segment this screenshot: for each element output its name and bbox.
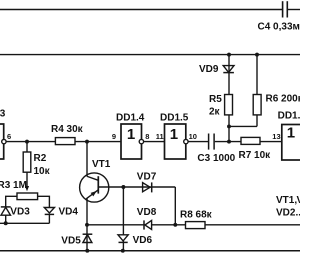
svg-text:8: 8 — [145, 132, 149, 141]
svg-text:R8 68к: R8 68к — [180, 210, 213, 221]
diode VD5 — [61, 234, 92, 246]
svg-text:1: 1 — [287, 125, 295, 142]
svg-text:10к: 10к — [34, 166, 51, 177]
svg-text:R2: R2 — [34, 153, 47, 164]
wire DD1.4 to DD1.5 — [144, 141, 165, 143]
svg-text:DD1.6: DD1.6 — [278, 111, 300, 122]
wire second rail — [0, 54, 300, 56]
wire DD1.5 to C3 — [188, 141, 208, 143]
wire C3 to R7 — [215, 141, 241, 143]
svg-text:DD1.4: DD1.4 — [116, 113, 145, 124]
diode VD6 — [118, 235, 152, 246]
resistor R4 — [51, 124, 84, 145]
wire top rail right of C4 — [288, 9, 300, 11]
svg-text:9: 9 — [112, 132, 116, 141]
wire VT1 emitter down — [86, 198, 88, 225]
wire VD7 row — [123, 186, 175, 188]
node junction VT1 collector tap — [85, 140, 89, 144]
gate DD1.4 — [112, 113, 150, 159]
wire top rail to C4 — [0, 9, 282, 11]
svg-text:VD9: VD9 — [199, 64, 219, 75]
resistor R6 — [253, 93, 304, 115]
node junction R5/R6 — [227, 124, 231, 128]
node junction VD6/bus — [121, 249, 125, 253]
resistor R8 — [180, 210, 213, 229]
potentiometer R3 — [0, 180, 38, 200]
svg-text:11: 11 — [156, 132, 164, 141]
node junction emitter/VD5 — [85, 223, 89, 227]
wire VD9-R5 branch — [228, 55, 230, 95]
svg-text:VT: VT — [297, 195, 301, 206]
svg-text:VD7: VD7 — [137, 172, 157, 183]
svg-text:1: 1 — [127, 126, 135, 143]
svg-text:6: 6 — [7, 132, 11, 141]
svg-text:10: 10 — [189, 132, 197, 141]
capacitor C4 — [258, 1, 306, 32]
wire main row DD1.3 to DD1.4 — [6, 141, 121, 143]
svg-text:VD8: VD8 — [137, 207, 157, 218]
svg-text:13: 13 — [272, 132, 280, 141]
resistor R5 — [209, 94, 233, 117]
svg-text:C3 1000: C3 1000 — [197, 153, 235, 164]
wire R3 right to VD4 — [38, 196, 50, 207]
diode VD4 — [44, 207, 78, 224]
node junction rail/R6 — [255, 53, 259, 57]
diode VD9 — [199, 64, 234, 75]
diode VD7 — [137, 172, 157, 193]
svg-text:VD2...: VD2... — [276, 208, 300, 219]
svg-text:R7 10к: R7 10к — [239, 150, 272, 161]
capacitor C3 — [197, 134, 235, 164]
svg-text:1: 1 — [170, 126, 178, 143]
node junction C3/R5 — [227, 140, 231, 144]
svg-text:VT1: VT1 — [92, 159, 111, 170]
wire bottom-left net VD3/VD4 — [0, 222, 49, 224]
svg-text:VD6: VD6 — [133, 235, 153, 246]
svg-text:R5: R5 — [209, 94, 222, 105]
wire R5-R6 bottom join — [229, 125, 257, 127]
node junction base/VD6 — [121, 185, 125, 189]
svg-text:VT1,: VT1, — [276, 195, 297, 206]
svg-text:R4 30к: R4 30к — [51, 124, 84, 135]
node junction VD8/R8 — [173, 223, 177, 227]
wire VD6 branch — [122, 187, 124, 251]
node junction rail/VD9 — [227, 53, 231, 57]
gate DD1.6 — [272, 111, 307, 160]
wire VD5 branch — [86, 225, 88, 251]
svg-text:C4 0,33мк: C4 0,33мк — [258, 22, 301, 33]
wire R7 to DD1.6 — [260, 141, 282, 143]
resistor R2 — [23, 142, 50, 177]
svg-text:VD3: VD3 — [10, 207, 30, 218]
svg-text:R3 1М: R3 1М — [0, 180, 27, 191]
svg-text:R6 200к: R6 200к — [266, 93, 301, 104]
wire R2 to R3 wiper arrow — [25, 172, 29, 191]
svg-text:VD4: VD4 — [59, 207, 79, 218]
svg-text:DD1.3: DD1.3 — [0, 109, 6, 120]
diode VD8 — [137, 207, 157, 230]
gate DD1.5 — [156, 113, 197, 159]
diode VD3 — [1, 207, 30, 224]
node junction VD5/bus — [85, 249, 89, 253]
svg-text:2к: 2к — [209, 106, 221, 117]
wire R3 left to VD3 — [6, 196, 17, 206]
node junction R2 tap — [25, 140, 29, 144]
svg-text:VD5: VD5 — [61, 235, 81, 246]
node junction VD3 bottom — [4, 221, 8, 225]
wire VT1 base to VD7 — [98, 186, 123, 188]
svg-text:DD1.5: DD1.5 — [160, 113, 189, 124]
wire bottom bus — [0, 250, 300, 252]
wire emitter net row — [87, 224, 300, 226]
wire VD7 corner down — [174, 187, 176, 225]
wire R6 branch — [256, 55, 258, 127]
gate DD1.3 (cut at left edge) — [0, 109, 11, 159]
wire R5 bottom to C3 node — [228, 115, 230, 142]
resistor R7 — [239, 137, 272, 160]
transistor VT1 — [80, 142, 111, 202]
